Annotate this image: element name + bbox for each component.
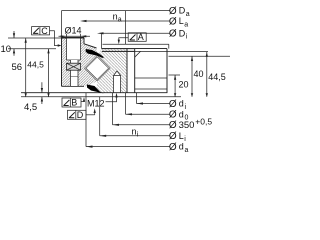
svg-text:M12: M12 [87,98,105,108]
roller pocket (white, raceway outline) [85,55,111,81]
svg-text:40: 40 [194,69,204,79]
d_a [86,93,170,147]
ring top double lines right part [102,49,167,52]
dim 10 [13,31,15,56]
svg-text:a: a [186,11,190,18]
svg-text:4,5: 4,5 [24,102,37,113]
svg-text:A: A [138,32,144,42]
svg-text:d: d [179,109,184,119]
narrow hole below [71,60,79,86]
L_i / n_i [100,97,170,136]
top extension line y=44.3 with right riser [103,44,169,48]
bottom lines [21,92,167,94]
d_i [137,93,170,104]
svg-text:44,5: 44,5 [208,72,226,82]
roller (crossed roller) [86,57,109,80]
D_a row [62,10,170,12]
svg-text:B: B [71,98,77,108]
20 [174,75,176,97]
svg-text:C: C [41,26,48,36]
svg-text:D: D [77,110,84,120]
svg-text:56: 56 [12,62,23,73]
M12 tapped hole [114,71,121,93]
svg-text:D: D [179,6,186,16]
svg-text:20: 20 [179,80,189,90]
svg-text:44,5: 44,5 [27,60,44,70]
svg-text:L: L [179,16,184,26]
svg-text:Ø: Ø [169,142,177,153]
L_a / n_a row [87,20,170,22]
svg-text:10: 10 [1,44,12,55]
svg-text:Ø: Ø [169,29,177,40]
svg-text:L: L [179,131,184,141]
svg-text:Ø: Ø [169,120,177,131]
dim 4,5 [41,82,43,104]
svg-text:Ø: Ø [169,6,177,17]
dim 56 [25,38,27,97]
svg-text:Ø: Ø [169,110,177,121]
svg-text:a: a [118,17,122,24]
350+0,5 [113,93,170,125]
44,5 [206,52,208,97]
svg-text:D: D [179,28,186,38]
svg-text:Ø: Ø [169,131,177,142]
top seal (black wedge) [86,49,104,58]
inner ring left (hatched) [62,38,98,86]
dim 44,5 left [48,49,50,97]
40 [191,56,193,97]
svg-text:a: a [185,147,189,154]
bottom seal (black wedge) [87,85,104,94]
svg-text:Ø14: Ø14 [65,26,82,36]
svg-text:d: d [179,142,184,152]
svg-text:Ø: Ø [169,16,177,27]
svg-text:a: a [184,21,188,28]
outer ring upper part (white right block) [135,49,167,93]
D_i row [104,32,170,34]
D_i riser [101,33,103,48]
d_0 [126,93,170,115]
svg-text:+0,5: +0,5 [195,117,212,127]
svg-text:Ø: Ø [169,99,177,110]
bore hole dia14 counterbore (white) [67,38,81,60]
plug / nipple detail [67,63,81,70]
outer ring lower part with M12 (hatched) [96,49,127,93]
svg-text:350: 350 [179,120,195,131]
svg-text:d: d [179,99,184,109]
